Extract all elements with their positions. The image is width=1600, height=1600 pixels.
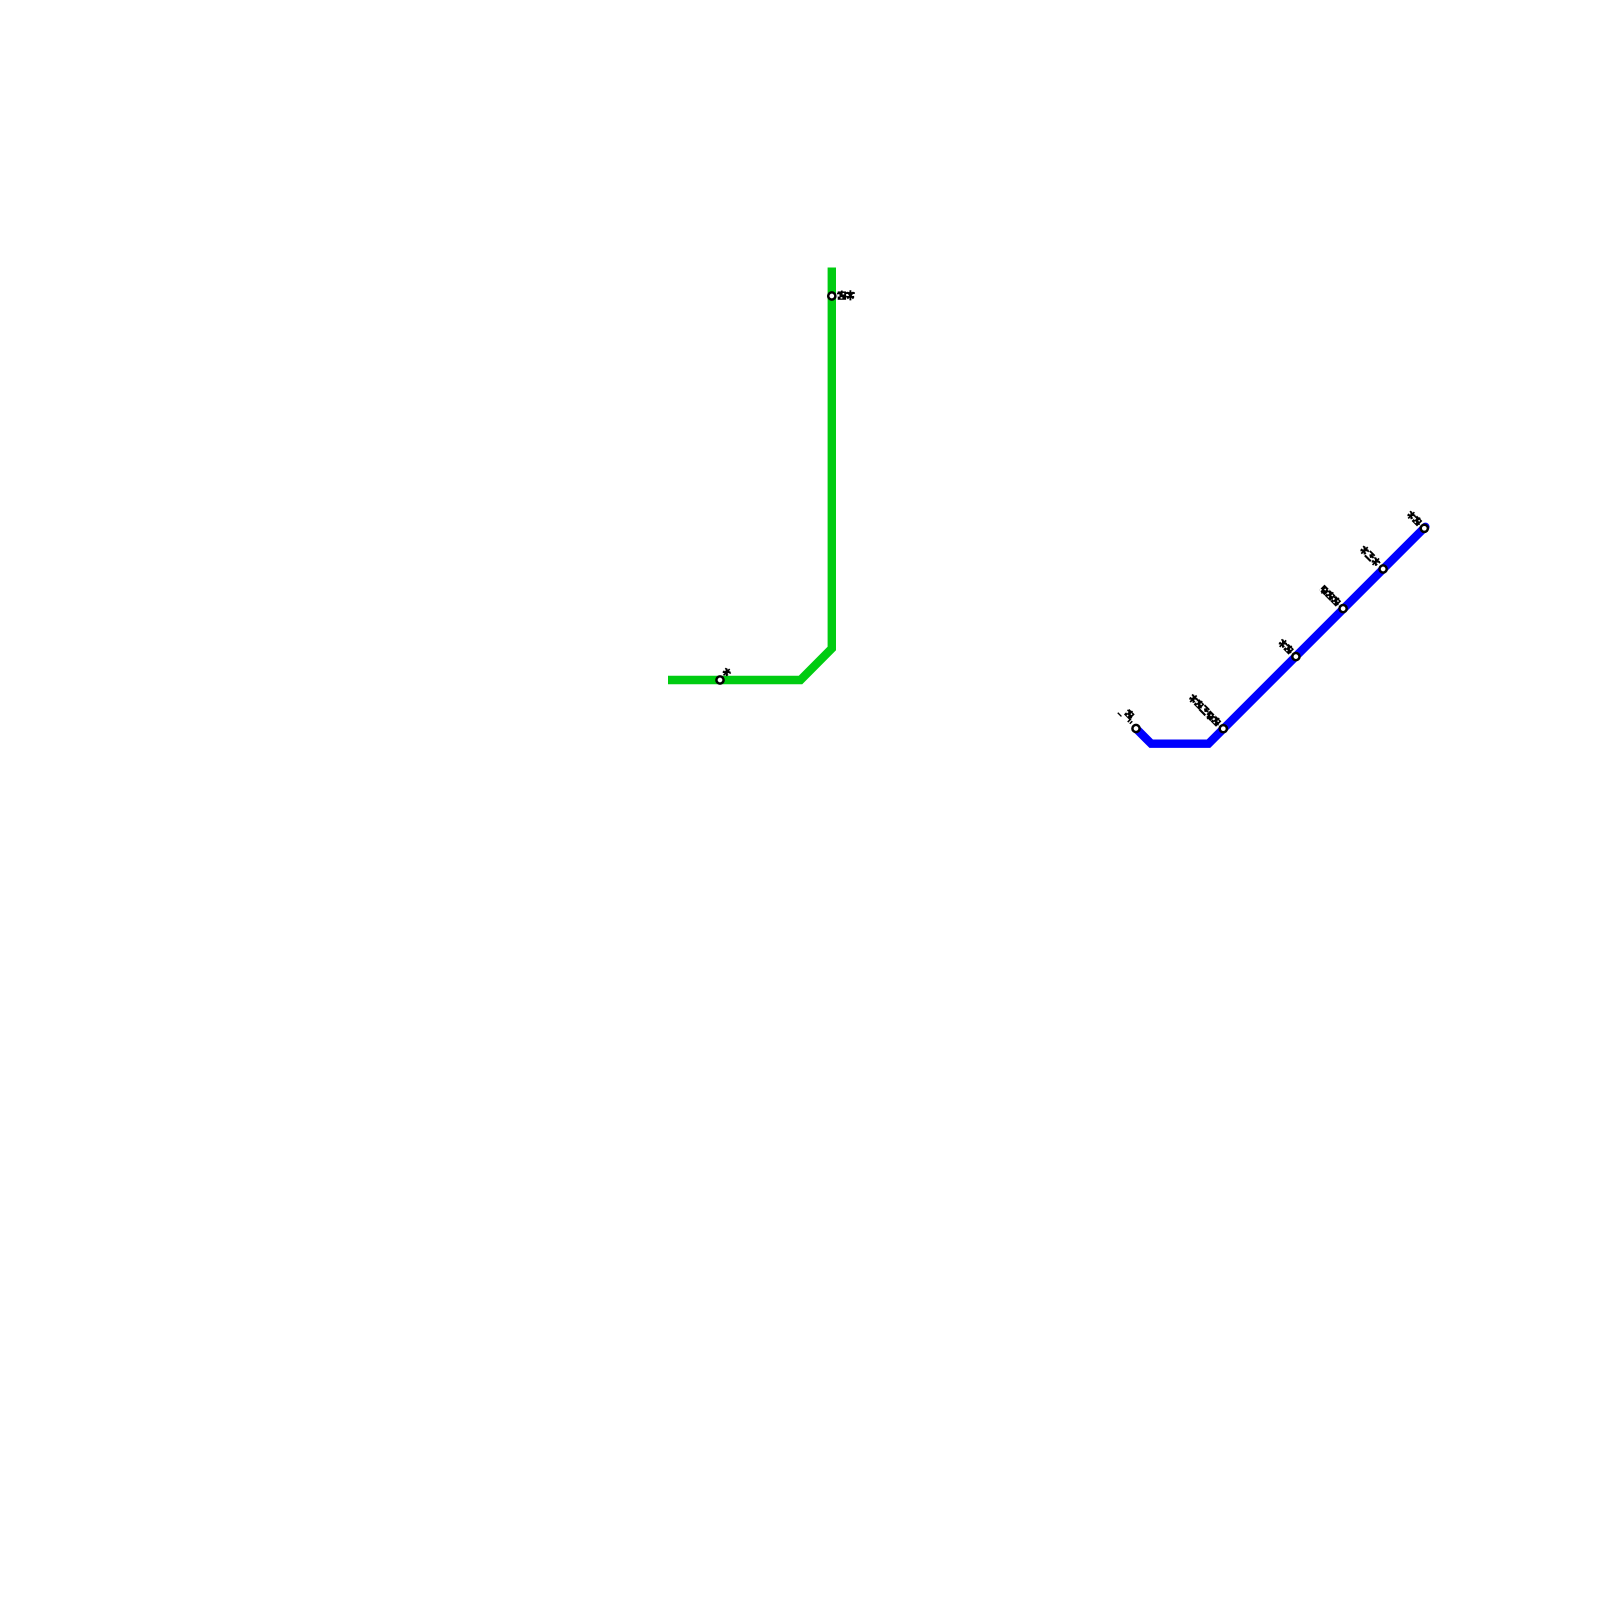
green station 1 label xyxy=(837,291,847,300)
green station 1 marker xyxy=(828,292,835,299)
blue station 4 marker xyxy=(1340,605,1347,612)
blue station 5 marker xyxy=(1380,565,1387,572)
blue station 3 label xyxy=(1277,638,1289,650)
blue station 5 label xyxy=(1358,544,1370,556)
blue metro line xyxy=(1136,527,1425,744)
blue station 6 label xyxy=(1406,510,1418,522)
blue station 4 label xyxy=(1319,585,1331,597)
green station 2 marker xyxy=(716,676,723,683)
blue station 3 marker xyxy=(1292,653,1299,660)
blue station 2 marker xyxy=(1220,725,1227,732)
green station 2 label xyxy=(721,666,733,678)
blue station 1 label xyxy=(1123,708,1135,720)
blue station 2 label xyxy=(1187,693,1199,705)
green metro line xyxy=(668,268,832,681)
blue station 1 (left terminus) marker xyxy=(1132,725,1139,732)
blue station 6 (right terminus) marker xyxy=(1421,525,1428,532)
